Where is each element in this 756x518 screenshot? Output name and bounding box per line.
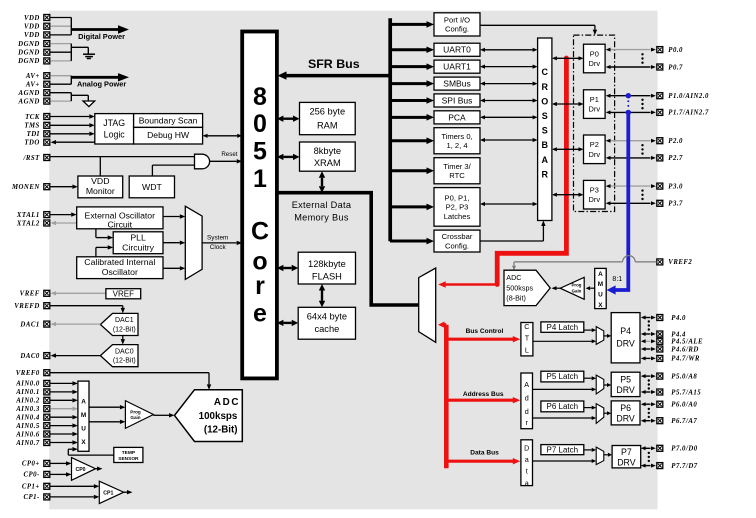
svg-text:Timer 3/: Timer 3/ [443,162,471,171]
pin P6.0/A0 [657,401,698,408]
svg-text:M: M [598,281,603,288]
dots P7 pins [648,452,650,462]
svg-text:P2.0: P2.0 [668,138,683,145]
svg-text:DAC1: DAC1 [115,317,134,324]
svg-text:P2: P2 [590,140,599,149]
block Debug HW [134,127,203,144]
svg-text:TCK: TCK [25,114,40,121]
svg-text:P7.7/D7: P7.7/D7 [671,463,697,470]
wire P2.0 [606,139,656,143]
red branch Address Bus [446,397,520,403]
amp PGA0 [125,401,153,429]
svg-text:TDO: TDO [24,140,39,147]
pin AIN0.7 [15,440,50,447]
block P4 Latch [541,322,584,332]
svg-text:T: T [525,334,530,343]
block AMUX0 [78,381,89,451]
wire system clock to core [202,241,242,245]
svg-text:Calibrated Internal: Calibrated Internal [84,257,155,267]
pin P4.0 [657,315,686,322]
svg-text:VREFD: VREFD [14,303,40,310]
pin CP0+ [22,460,50,467]
block 128kbyte FLASH [298,252,355,284]
block SMBus [434,77,480,90]
block UART1 [434,60,480,73]
block P6 Latch [541,401,584,412]
pin VREF0 [16,370,50,377]
svg-text:P6.7/A7: P6.7/A7 [671,418,697,425]
svg-text:R: R [541,82,548,92]
wire CIO to mux [163,266,185,270]
pin VREF [20,290,50,297]
digital ground symbol [83,47,95,58]
pin DAC1 [19,321,49,328]
pin P4.6/RD [657,346,699,353]
blue junction dots [626,93,631,115]
bus peripheral vertical [388,18,392,241]
svg-text:Monitor: Monitor [86,186,115,196]
arrow Digital Power [71,25,129,33]
svg-text:ADC: ADC [214,397,240,408]
label External Data Memory Bus [292,200,352,223]
mux system clock [185,206,202,279]
amp CP1 [99,481,123,503]
wire MONEN [50,185,78,189]
svg-text:100ksps: 100ksps [199,411,238,422]
block UART0 [434,43,480,56]
mux external memory interface [419,268,436,342]
wire PGA0 to ADC0 [153,413,174,417]
pin AIN0.3 [15,406,50,413]
svg-text:Config.: Config. [445,241,469,250]
wire PCA-crossbar [480,115,538,119]
svg-text:(12-Bit): (12-Bit) [113,358,136,365]
svg-text:P4.6/RD: P4.6/RD [671,346,698,353]
svg-text:AV+: AV+ [25,82,40,89]
wire /RST [50,156,194,158]
svg-text:TDI: TDI [27,131,40,138]
wire SPI-crossbar [480,98,538,102]
wire P4 Latch to mux [584,328,596,332]
svg-text:RTC: RTC [449,171,465,180]
wire AIN0.0 [50,381,78,385]
wire AIN0.1 [50,390,78,394]
red branch Bus Control [446,336,520,342]
pin /RST [22,155,49,162]
svg-text:VDD: VDD [91,176,109,186]
wire PGA2 to ADC2 [552,286,561,290]
svg-text:X: X [81,439,86,446]
svg-text:(12-Bit): (12-Bit) [204,424,238,435]
block CTL [521,322,533,356]
pin P3.0 [657,183,683,190]
label Reset [221,151,237,158]
wire Port I/O to port drivers [480,25,597,35]
wire AMUX0 to PGA a [89,405,125,409]
svg-text:AIN0.5: AIN0.5 [15,423,40,430]
wire WDT to gate [152,165,194,176]
arrow Analog Power [71,73,129,81]
svg-text:Address Bus: Address Bus [463,391,504,398]
pin P4.5/ALE [657,338,703,345]
dots port pins [641,53,643,64]
svg-text:P7.0/D0: P7.0/D0 [671,446,697,453]
pin P1.0/AIN2.0 [657,93,709,100]
red bus crossbar to mux [438,58,566,288]
svg-text:8: 8 [253,83,267,111]
wire bus to PCA [390,114,434,121]
wire P3.0 [606,184,656,188]
wire P4.7/WR [641,356,656,360]
svg-text:Gain: Gain [130,415,140,420]
block P5 Latch [541,371,584,382]
wire TCK [50,114,95,118]
svg-text:DRV: DRV [617,458,636,468]
block 64x4 byte cache [298,307,355,339]
svg-text:TMS: TMS [24,123,39,130]
wire P5.0/A8 [641,374,656,378]
pin AV+ [25,73,50,80]
wire Latches-crossbar [480,202,538,206]
svg-text:P0.0: P0.0 [668,47,683,54]
svg-text:SPI Bus: SPI Bus [442,95,473,105]
svg-text:Prog: Prog [571,283,581,288]
block 256 byte RAM [300,102,356,134]
wire P7.7/D7 [641,464,656,468]
mux P7 [596,447,604,465]
wire CIO to PLL [96,245,113,257]
svg-text:FLASH: FLASH [312,271,342,281]
block 8051 core [242,32,277,379]
svg-text:P4.0: P4.0 [671,315,686,322]
pin VDD [24,32,50,39]
wire CP0 out [96,467,103,471]
pin TMS [24,122,49,129]
pin AIN0.4 [15,414,50,421]
svg-text:C: C [251,217,269,245]
wire reset to core [210,159,242,163]
wire core-RAM [277,116,300,122]
block Timer 3/ [434,158,480,184]
pin TDI [27,131,50,138]
svg-text:X: X [598,302,603,309]
wire crossbar-P2drv [552,147,584,151]
wire mux to P4 DRV [604,334,611,338]
pin DGND [17,58,50,65]
wire crossbar-P3drv [552,193,584,197]
svg-text:P5 Latch: P5 Latch [547,372,579,381]
svg-text:XTAL1: XTAL1 [16,212,40,219]
wire SMBus-crossbar [480,82,538,86]
wire VREF2 [512,256,657,271]
pin XTAL2 [16,220,50,227]
block VREF [106,289,141,299]
pin P7.0/D0 [657,445,698,452]
wire Addr to P6 mux [533,416,597,420]
svg-text:P2.7: P2.7 [668,155,683,162]
wire AIN0.5 [50,423,78,427]
svg-text:r: r [255,272,265,300]
svg-text:CP0+: CP0+ [22,461,40,468]
svg-text:P5: P5 [620,374,631,384]
port drivers dash-dot box [574,35,615,211]
wire AIN0.6 [50,432,78,436]
wire DAC1 to DAC0 [121,336,125,345]
svg-text:C: C [524,322,529,331]
pin TCK [25,114,50,121]
svg-text:B: B [541,140,548,150]
svg-text:A: A [598,271,603,278]
svg-text:Drv: Drv [589,59,601,68]
svg-text:PLL: PLL [130,233,146,243]
svg-text:cache: cache [314,324,339,334]
svg-text:CP1+: CP1+ [22,484,40,491]
wire EOC to mux [163,214,185,218]
svg-text:P4.7/WR: P4.7/WR [671,356,700,363]
mux P6 [596,404,604,424]
pin VDD [24,23,50,30]
svg-text:RAM: RAM [317,121,338,131]
wire P4.5/ALE [641,339,656,343]
pin P7.7/D7 [657,463,698,470]
adc ADC2 [504,270,550,305]
svg-text:A: A [524,380,529,389]
svg-text:P5.7/A15: P5.7/A15 [671,389,701,396]
block Timers 0, [434,128,480,154]
wire bus to SMBus [390,80,434,87]
svg-text:SFR Bus: SFR Bus [308,57,360,71]
pin CP1+ [22,483,50,490]
dots port pins [641,189,643,200]
svg-text:64x4 byte: 64x4 byte [307,312,347,322]
wire /RST to VDD monitor [99,157,101,176]
pin P3.7 [657,200,683,207]
pin P5.7/A15 [657,389,701,396]
dots port pins [641,144,643,155]
wire VREFD [50,306,125,314]
wire bus to P0, P1, [390,204,434,211]
wire P0.7 [606,65,656,69]
pin P2.7 [657,155,683,162]
pin P1.7/AIN2.7 [657,109,709,116]
label System Clock [207,235,228,251]
svg-text:P0.7: P0.7 [668,64,683,71]
svg-text:VREF: VREF [113,289,134,298]
dots P5 pins [648,379,650,389]
pin VDD [24,15,50,22]
wire AV+ bus [50,76,71,85]
pin P0.0 [657,47,683,54]
pin P6.7/A7 [657,418,698,425]
svg-text:Drv: Drv [589,105,601,114]
wire CP0+ [50,461,71,465]
mux P4 [596,327,604,345]
wire bus to Port I/O [390,21,434,28]
svg-text:P3.7: P3.7 [668,201,683,208]
svg-text:A: A [81,399,86,406]
svg-text:Reset: Reset [221,151,237,158]
wire bus to Timers 0, [390,137,434,144]
svg-text:CP1: CP1 [103,490,113,496]
block WDT [129,176,174,198]
svg-text:AIN0.1: AIN0.1 [15,389,40,396]
pin DAC0 [19,353,49,360]
svg-text:U: U [81,426,86,433]
pin AGND [18,98,50,105]
analog ground symbol [83,101,95,107]
wire CP1- [50,495,99,499]
label Data Bus [470,449,499,456]
label CROSSBAR [541,67,548,179]
wire P1.0/AIN2.0 [606,94,656,98]
pin AGND [18,90,50,97]
block CROSSBAR [538,38,552,221]
block Crossbar [434,230,480,252]
svg-text:AGND: AGND [18,98,40,105]
wire FLASH-cache [319,284,325,307]
wire P2.7 [606,156,656,160]
svg-text:d: d [525,407,529,416]
block P7 Latch [541,445,584,455]
svg-text:VREF2: VREF2 [668,259,692,266]
svg-text:P7 Latch: P7 Latch [547,445,579,454]
svg-text:CP0-: CP0- [23,472,40,479]
wire P4.4 [641,332,656,336]
svg-text:P4: P4 [620,326,631,336]
svg-text:P4.5/ALE: P4.5/ALE [671,339,703,346]
label Analog Power [77,79,126,88]
wire Data to P7 mux [533,459,597,463]
svg-text:UART0: UART0 [443,45,471,55]
svg-text:VDD: VDD [24,32,40,39]
svg-text:ADC: ADC [506,273,521,282]
svg-text:L: L [525,346,529,355]
svg-text:/RST: /RST [22,155,40,162]
svg-text:AIN0.4: AIN0.4 [15,415,40,422]
wire TDI [50,132,95,136]
wire mux to P7 DRV [604,453,612,457]
wire VDD bus [50,18,71,35]
block SPI Bus [434,94,480,107]
reset gate [195,154,210,169]
svg-text:DGND: DGND [17,41,40,48]
svg-text:Analog Power: Analog Power [77,79,126,88]
wire EOC to PLL [96,229,113,240]
svg-text:Memory Bus: Memory Bus [294,213,349,223]
svg-text:Crossbar: Crossbar [442,232,473,241]
wire AMUX0 to PGA b [89,420,125,424]
svg-text:S: S [542,111,548,121]
svg-text:DRV: DRV [616,385,635,395]
svg-text:P6 Latch: P6 Latch [547,402,579,411]
wire mux to P6 DRV [604,411,611,415]
svg-text:P4.4: P4.4 [671,331,686,338]
svg-text:DGND: DGND [17,58,40,65]
block P3 Drv [584,180,606,209]
svg-text:D: D [524,444,529,453]
svg-text:0: 0 [253,110,267,138]
wire P7 Latch to mux [584,448,596,452]
label Bus Control [466,328,504,335]
wire P5.7/A15 [641,390,656,394]
svg-text:5: 5 [253,137,267,165]
block P0 Drv [584,44,606,73]
label Digital Power [78,32,125,41]
svg-text:TEMP: TEMP [122,450,136,456]
pin CP0- [23,471,49,478]
blue bus to AMUX2 [607,112,629,294]
svg-text:a: a [525,478,529,487]
svg-text:Prog: Prog [130,409,141,414]
svg-text:Latches: Latches [444,212,471,221]
svg-text:P6: P6 [620,403,631,413]
dots port pins [641,99,643,110]
svg-text:Debug HW: Debug HW [147,130,190,140]
wire bus to UART0 [390,47,434,54]
block P6 DRV [611,401,640,425]
wire bus to Crossbar [390,238,434,245]
svg-text:SENSOR: SENSOR [118,456,139,462]
svg-text:256 byte: 256 byte [309,107,345,117]
svg-text:C: C [541,67,548,77]
label 8051 Core [251,83,269,328]
block PLL Circuitry [113,232,163,254]
pin P2.0 [657,138,683,145]
svg-text:JTAG: JTAG [103,118,125,128]
wire P4.6/RD [641,347,656,351]
svg-text:P5.0/A8: P5.0/A8 [671,373,697,380]
pin AIN0.2 [15,397,50,404]
wire crossbar-P0drv [552,56,584,60]
dac DAC0 [100,345,138,367]
wire CP1 out [124,490,133,494]
block 8kbyte XRAM [300,142,356,171]
pin VREF2 [657,259,693,266]
svg-text:VREF0: VREF0 [16,370,40,377]
wire CP1+ [50,484,99,488]
svg-text:a: a [525,455,529,464]
svg-text:128kbyte: 128kbyte [308,259,346,269]
wire P3.7 [606,201,656,205]
wire AIN0.4 [50,415,78,419]
svg-text:DAC1: DAC1 [19,321,39,328]
svg-text:P1.0/AIN2.0: P1.0/AIN2.0 [668,93,709,100]
amp CP0 [72,458,96,481]
wire P6.0/A0 [641,402,656,406]
svg-text:P0, P1,: P0, P1, [445,193,470,202]
bus SFR [278,71,391,79]
svg-text:P3.0: P3.0 [668,183,683,190]
svg-text:Circuitry: Circuitry [122,242,155,252]
wire bus to UART1 [390,63,434,70]
svg-text:CP0: CP0 [75,467,85,473]
bus External Data Memory Bus [277,193,419,305]
pin DGND [17,41,50,48]
svg-text:MONEN: MONEN [11,184,40,191]
wire bus to Timer 3/ [390,167,434,174]
pin CP1- [23,494,49,501]
wire core-cache [277,320,298,326]
svg-text:AGND: AGND [18,90,40,97]
label AMUX0 [81,399,87,446]
svg-text:DAC0: DAC0 [115,348,134,355]
wire AMUX2 to PGA2 [586,286,595,290]
svg-text:500ksps: 500ksps [506,283,533,292]
wire P6 Latch to mux [584,406,596,410]
wire Debug HW to core [203,134,243,138]
dac DAC1 [100,313,138,335]
wire P6.7/A7 [641,419,656,423]
